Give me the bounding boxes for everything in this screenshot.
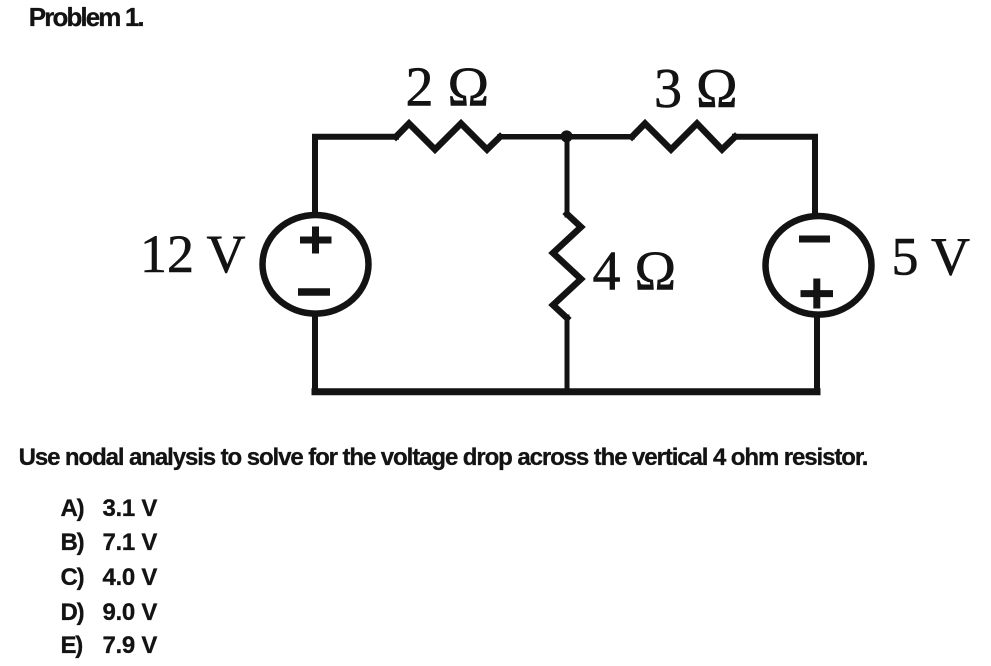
svg-text:4 Ω: 4 Ω bbox=[593, 241, 677, 303]
wire: right vertical lower (source to bottom rail) bbox=[814, 318, 820, 392]
svg-text:2 Ω: 2 Ω bbox=[406, 57, 490, 119]
V1 minus sign bbox=[298, 288, 330, 296]
svg-text:5 V: 5 V bbox=[892, 227, 971, 287]
answer choices bbox=[61, 497, 84, 521]
wire: middle vertical lower bbox=[565, 317, 570, 392]
V2 minus sign bbox=[799, 236, 830, 243]
svg-text:12 V: 12 V bbox=[140, 224, 246, 284]
wire: top rail middle segment bbox=[500, 134, 632, 140]
resistor R3 4ohm vertical zigzag bbox=[553, 214, 581, 318]
wire: middle vertical upper bbox=[565, 137, 570, 215]
resistor R1 2ohm zigzag bbox=[396, 124, 500, 150]
V1 plus sign bbox=[300, 227, 332, 254]
wire: left vertical lower (source to bottom rail) bbox=[312, 317, 318, 392]
wire: top rail left segment with top-left corner bbox=[315, 137, 396, 212]
voltage source V1 12V circle bbox=[263, 215, 369, 314]
svg-text:3 Ω: 3 Ω bbox=[654, 58, 738, 120]
resistor R2 3ohm zigzag bbox=[632, 124, 735, 150]
wire: top rail right segment with top-right corner bbox=[735, 137, 815, 213]
node A junction dot bbox=[561, 130, 573, 142]
wire: bottom rail bbox=[315, 388, 817, 395]
question text bbox=[19, 446, 868, 470]
title: Problem 1. bbox=[29, 4, 143, 30]
V2 plus sign bbox=[801, 279, 834, 309]
voltage source V2 5V circle bbox=[766, 216, 872, 315]
